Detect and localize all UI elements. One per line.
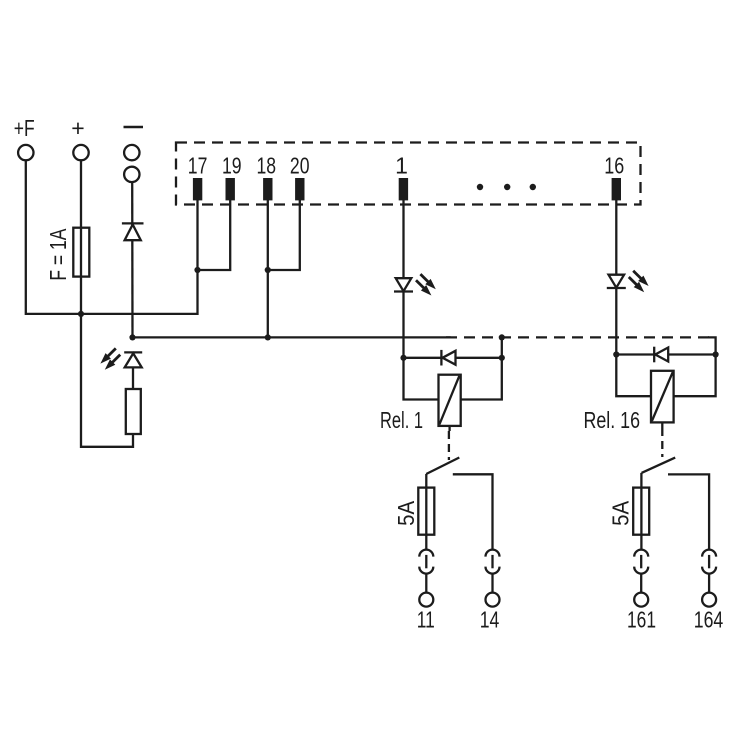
resistor R1 <box>126 389 141 434</box>
svg-text:+: + <box>71 115 84 141</box>
actuator link relay16 <box>661 428 663 457</box>
pin 1 <box>399 178 408 200</box>
node relay1 left <box>400 355 406 361</box>
wire pin 16 to LED <box>615 200 617 275</box>
svg-text:18: 18 <box>257 153 277 179</box>
connector upper arc 11 <box>419 550 433 557</box>
relay coil K1 <box>439 375 461 426</box>
actuator link relay1 <box>448 431 450 460</box>
wire pin 19 to junction <box>198 200 231 270</box>
wire connector to terminal 161 <box>640 574 642 593</box>
wire connector to terminal 14 <box>491 574 493 593</box>
wire pin 1 to LED <box>402 200 404 278</box>
wire resistor return to + node <box>81 314 133 447</box>
junction + / +F rail <box>78 311 84 317</box>
terminal +F <box>18 145 33 160</box>
terminal 164 <box>702 593 716 607</box>
svg-text:14: 14 <box>480 607 500 633</box>
junction bus/minus <box>129 334 135 340</box>
svg-text:17: 17 <box>188 153 208 179</box>
bus solid segment <box>133 336 451 338</box>
pin 16 <box>612 178 621 200</box>
wire connector to terminal 164 <box>708 574 710 593</box>
fuse 5A relay16 <box>633 488 649 535</box>
junction bus/18-20 <box>265 334 271 340</box>
terminal minus lower <box>124 167 139 182</box>
junction bus/relay1 <box>499 334 505 340</box>
pin 20 <box>295 178 304 200</box>
wire coil1 right <box>461 358 502 400</box>
wire coil16 right <box>674 355 716 397</box>
wire blade to terminal 161 <box>640 473 642 550</box>
svg-text:F = 1A: F = 1A <box>45 228 71 280</box>
connector pin 164 <box>708 555 710 568</box>
connector lower arc 14 <box>486 567 500 574</box>
terminal 14 <box>486 593 500 607</box>
wire +F to fused-plus rail <box>26 160 198 314</box>
connector lower arc 11 <box>419 567 433 574</box>
svg-text:1: 1 <box>395 153 408 179</box>
LED 16 <box>607 275 626 288</box>
wire pin 20 to junction <box>268 200 300 270</box>
svg-text:Rel. 16: Rel. 16 <box>584 407 641 433</box>
wire NO contact to terminal 164 <box>668 474 709 550</box>
wire coil16 left <box>616 355 651 397</box>
junction pins 17/19 <box>194 267 200 273</box>
connector upper arc 164 <box>702 550 716 557</box>
fuse F1 <box>73 228 89 277</box>
LED 1 arrows <box>416 274 436 295</box>
junction pins 18/20 <box>265 267 271 273</box>
freewheel diode relay16 <box>616 347 715 363</box>
freewheel diode relay1 <box>404 350 502 366</box>
wire + down through fuse <box>80 160 82 314</box>
wire pin 17 down <box>196 200 198 270</box>
pin 19 <box>226 178 235 200</box>
bus corner to relay 16 <box>708 337 716 354</box>
node relay16 right <box>713 351 719 357</box>
connector upper arc 14 <box>486 550 500 557</box>
svg-text:Rel. 1: Rel. 1 <box>380 407 423 433</box>
wire bus to relay1 node <box>501 337 503 357</box>
relay coil K16 <box>651 371 674 423</box>
fuse 5A relay1 <box>418 488 434 535</box>
svg-text:+F: +F <box>14 115 35 141</box>
svg-text:19: 19 <box>222 153 242 179</box>
wire LED16 to node <box>615 288 617 355</box>
svg-text:164: 164 <box>694 607 724 633</box>
connector pin 14 <box>491 555 493 568</box>
connector pin 161 <box>640 555 642 568</box>
terminal 11 <box>419 593 433 607</box>
diode D1 reverse-polarity <box>122 223 144 240</box>
switch blade relay1 <box>426 458 459 475</box>
svg-text:5A: 5A <box>393 500 419 526</box>
wire connector to terminal 11 <box>425 574 427 593</box>
coil16 stub <box>661 422 663 428</box>
svg-text:16: 16 <box>604 153 624 179</box>
svg-text:5A: 5A <box>607 500 633 526</box>
wire NO contact to terminal 14 <box>453 474 493 550</box>
connector lower arc 161 <box>634 567 648 574</box>
wire minus down to bus <box>131 182 134 336</box>
wire coil1 left <box>404 358 439 400</box>
wire pin 18 down to bus <box>267 200 269 336</box>
svg-text:161: 161 <box>627 607 656 633</box>
LED 16 arrows <box>629 271 649 292</box>
svg-text:11: 11 <box>417 607 435 633</box>
node relay16 left <box>613 351 619 357</box>
switch blade relay16 <box>642 458 676 473</box>
connector pin 11 <box>425 555 427 568</box>
svg-text:20: 20 <box>290 153 310 179</box>
node relay1 right <box>499 355 505 361</box>
wire blade to terminal 11 <box>425 474 427 550</box>
bus dashed segment <box>446 336 716 338</box>
terminal 161 <box>634 593 648 607</box>
label minus <box>124 126 144 129</box>
connector upper arc 161 <box>634 550 648 557</box>
pin 18 <box>263 178 272 200</box>
connector lower arc 164 <box>702 567 716 574</box>
wire LED1 to node <box>402 292 404 358</box>
LED 1 <box>394 278 413 291</box>
wire LED to resistor <box>132 367 134 389</box>
pin 17 <box>193 178 202 200</box>
dashed terminal block outline <box>176 143 641 205</box>
terminal minus upper <box>124 145 139 160</box>
coil1 stub <box>448 426 450 431</box>
power LED arrows <box>100 348 120 369</box>
ellipsis dots <box>477 184 536 190</box>
terminal + <box>73 145 88 160</box>
power LED <box>124 352 142 367</box>
